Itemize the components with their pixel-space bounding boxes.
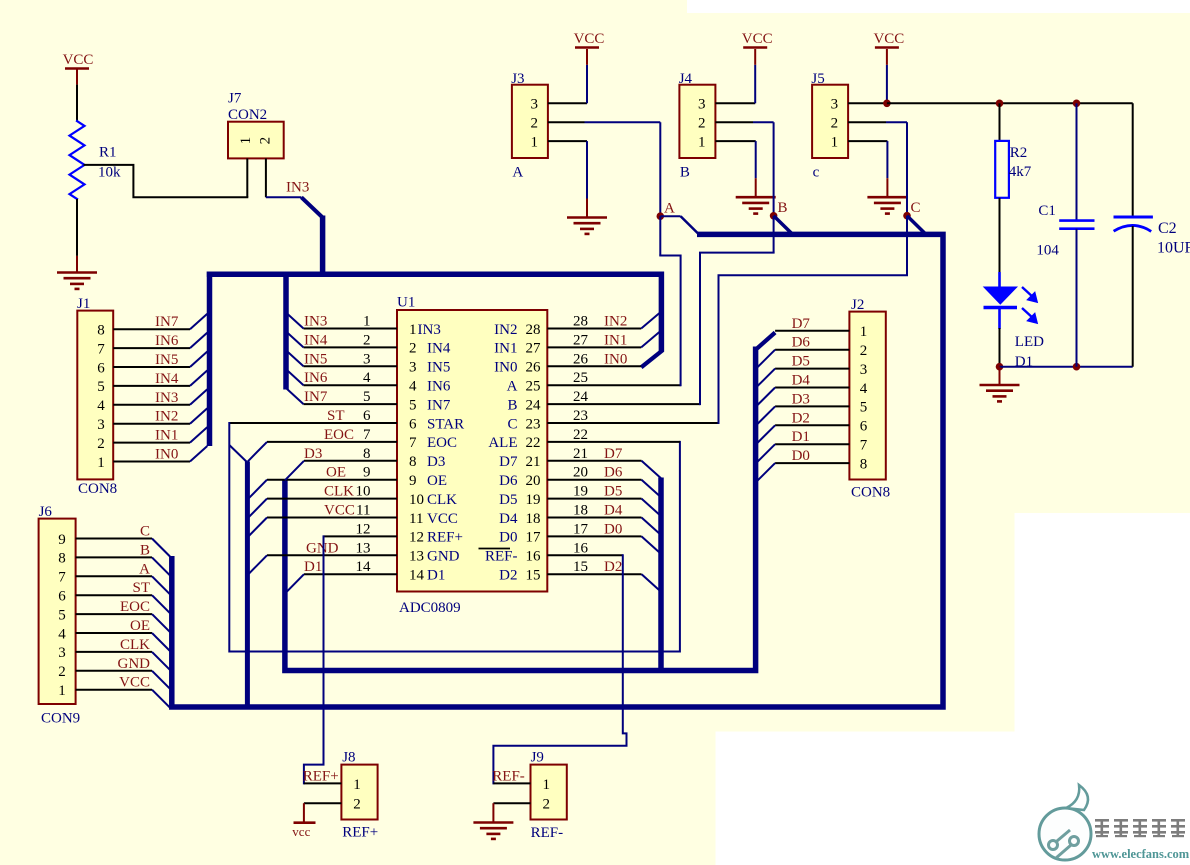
pin 23 of U1 [547,422,718,424]
svg-text:25: 25 [573,370,588,386]
svg-text:IN2: IN2 [604,314,627,330]
svg-text:OE: OE [130,618,150,634]
svg-text:2: 2 [363,332,371,348]
svg-text:6: 6 [58,589,66,605]
svg-text:23: 23 [526,416,541,432]
bus entry IN1 to right IN leg [641,332,659,348]
node A [657,212,665,220]
svg-text:STAR: STAR [427,416,464,432]
pin 3 of U1 [304,365,398,367]
bus entry ST to bus [152,595,170,613]
svg-text:D5: D5 [604,484,622,500]
svg-text:VCC: VCC [873,31,904,47]
svg-text:R2: R2 [1010,145,1028,161]
bus entry D4 to data bus [757,388,776,407]
wire C net (U1 pin23 up to node C) [719,275,908,423]
svg-text:14: 14 [356,559,372,575]
svg-text:D2: D2 [604,559,622,575]
overbar on REF- pin name (pin16) [479,548,511,550]
svg-text:1: 1 [363,314,371,330]
pin 1 of J5 to ground [848,140,887,142]
pin 11 of U1 [267,517,397,519]
svg-text:A: A [139,561,150,577]
bus entry EOC to bus A [248,442,267,462]
svg-text:28: 28 [526,322,541,338]
wire REF+ net (pin12 down to J8) [304,536,324,783]
svg-text:IN3: IN3 [155,390,178,406]
wire VCC to R1 [76,85,78,121]
svg-text:2: 2 [530,116,538,132]
pin 10 of U1 [267,498,397,500]
svg-text:C1: C1 [1038,203,1056,219]
svg-text:5: 5 [97,379,105,395]
svg-text:B: B [778,200,788,216]
pin 5 of U1 [304,403,398,405]
svg-text:vcc: vcc [292,824,310,839]
svg-text:3: 3 [698,97,706,113]
capacitor C2 10UF [1132,103,1134,216]
bus (U1 right IN leg) [659,272,665,352]
svg-text:4: 4 [97,398,105,414]
svg-text:7: 7 [97,341,105,357]
bus entry IN7 to input bus [190,314,207,330]
bus entry IN2 to input bus [190,408,207,424]
bus entry VCC to bus A [248,518,267,538]
svg-text:3: 3 [58,645,66,661]
pin 3 of J4 to VCC [715,102,755,104]
svg-text:16: 16 [526,549,542,565]
bus entry EOC to bus [152,614,170,632]
ground (LED) [999,367,1001,385]
svg-text:D3: D3 [792,391,810,407]
svg-text:8: 8 [97,323,105,339]
svg-text:IN3: IN3 [286,180,309,196]
svg-text:9: 9 [409,473,417,489]
svg-text:IN6: IN6 [155,333,179,349]
svg-text:D0: D0 [499,530,517,546]
svg-text:2: 2 [97,436,105,452]
pin 2 of U1 [304,346,398,348]
svg-text:IN6: IN6 [304,370,328,386]
bus IN3 vertical to top bus [320,216,326,277]
pin 2 of J8 to vcc [304,802,342,804]
pin 4 of U1 [304,384,398,386]
bus entry D3 to data bus [757,406,776,425]
node B [770,212,778,220]
svg-text:13: 13 [356,540,371,556]
svg-text:CON2: CON2 [228,107,267,123]
ground (J5) [867,196,907,199]
svg-text:VCC: VCC [63,52,94,68]
svg-text:D1: D1 [427,568,445,584]
junction at R2 top [996,100,1004,108]
bus D entry to J2 D7 (thick diagonal) [757,333,775,349]
bus entry B (diagonal) [774,216,793,234]
svg-text:4: 4 [363,370,371,386]
svg-text:U1: U1 [397,295,415,311]
svg-text:IN5: IN5 [304,351,327,367]
pin 1 of J3 to ground [548,140,587,142]
pin 25 of U1 [547,384,680,386]
svg-text:D3: D3 [304,446,322,462]
pin 18 of U1 [547,517,641,519]
pin 19 of U1 [547,498,641,500]
bus entry IN6 to input bus [190,333,207,349]
svg-text:25: 25 [526,379,541,395]
svg-text:VCC: VCC [427,511,458,527]
bus A (control bus vertical) [245,462,250,709]
bus entry IN4 to input bus [190,370,207,386]
pin 15 of U1 [547,573,641,575]
svg-text:IN3: IN3 [418,322,441,338]
wire VCC rail (J5 pin3 to C2) [887,102,1133,104]
svg-text:B: B [140,542,150,558]
svg-text:20: 20 [573,465,588,481]
svg-text:IN7: IN7 [427,397,451,413]
junction at C1 bottom [1073,363,1081,371]
svg-text:REF-: REF- [492,769,525,785]
bus (J1 input bus vertical) [207,272,213,447]
ground (J3) [567,216,607,219]
svg-text:IN4: IN4 [304,332,328,348]
svg-text:10UF: 10UF [1157,240,1190,257]
svg-text:23: 23 [573,408,588,424]
svg-text:1: 1 [543,777,551,793]
svg-text:IN5: IN5 [155,352,178,368]
svg-text:J6: J6 [39,504,53,520]
pin 16 of U1 [547,554,623,556]
pin 1 of U1 [304,328,398,330]
svg-text:IN0: IN0 [155,447,178,463]
bus entry D3 to bus D [285,461,304,481]
svg-text:ADC0809: ADC0809 [399,600,461,616]
watermark text [1095,819,1185,837]
svg-text:24: 24 [526,397,542,413]
svg-text:15: 15 [526,568,541,584]
svg-text:EOC: EOC [120,599,150,615]
svg-text:2: 2 [353,797,361,813]
svg-text:B: B [507,397,517,413]
svg-text:D4: D4 [604,503,623,519]
svg-text:6: 6 [409,416,417,432]
svg-text:19: 19 [573,484,588,500]
svg-text:D1: D1 [304,559,322,575]
svg-text:CLK: CLK [427,492,457,508]
ground (J4) [736,196,776,199]
svg-text:5: 5 [860,400,868,416]
svg-text:IN1: IN1 [155,428,178,444]
bus entry A to bus [152,576,170,594]
bus entry CLK to bus [152,652,170,670]
bus (U1 input bus vertical) [283,272,289,390]
svg-text:20: 20 [526,473,541,489]
wire bottom rail (LED to C2) [1000,366,1133,368]
junction at C1 top [1073,100,1081,108]
svg-text:1: 1 [58,683,66,699]
svg-text:1: 1 [238,137,254,145]
svg-text:OE: OE [326,465,346,481]
bus entry IN3 to input bus [190,389,207,405]
svg-text:D4: D4 [499,511,518,527]
bus D (left data bus + bottom run) [285,347,756,671]
bus entries U1 pins 1-5 from input bus [286,313,303,329]
svg-text:2: 2 [831,116,839,132]
svg-text:J9: J9 [531,750,544,766]
svg-text:21: 21 [526,454,541,470]
svg-text:4: 4 [860,381,868,397]
svg-text:A: A [512,165,523,181]
svg-text:8: 8 [409,454,417,470]
svg-text:27: 27 [573,332,589,348]
svg-text:2: 2 [409,341,417,357]
svg-text:D7: D7 [499,454,518,470]
pin 13 of U1 [267,554,397,556]
watermark logo elecfans [1039,785,1190,861]
svg-text:8: 8 [363,446,371,462]
svg-text:16: 16 [573,540,589,556]
wire LED to ground rail [999,328,1001,367]
svg-text:www.elecfans.com: www.elecfans.com [1092,847,1190,861]
wire R1 to ground [76,199,78,256]
bus entry IN0 to input bus [190,446,207,462]
svg-text:OE: OE [427,473,447,489]
svg-text:18: 18 [573,503,588,519]
bus entry C to bus [152,539,170,557]
svg-text:D2: D2 [792,410,810,426]
svg-text:6: 6 [860,419,868,435]
svg-text:IN6: IN6 [427,379,451,395]
ground (below R1) [57,271,97,274]
svg-text:IN2: IN2 [155,409,178,425]
svg-text:3: 3 [831,97,839,113]
svg-text:IN4: IN4 [427,341,451,357]
capacitor C1 104 [1076,103,1078,219]
svg-text:IN7: IN7 [304,389,328,405]
bus entry OE to bus [152,633,170,651]
svg-text:EOC: EOC [427,435,457,451]
svg-text:C2: C2 [1158,220,1177,237]
svg-text:26: 26 [526,360,542,376]
bus entry IN1 to input bus [190,427,207,443]
svg-text:D0: D0 [792,448,810,464]
svg-text:IN3: IN3 [304,314,327,330]
svg-text:22: 22 [526,435,541,451]
svg-text:28: 28 [573,314,588,330]
svg-text:GND: GND [118,656,151,672]
bus entry D1 to data bus [757,444,776,463]
svg-text:LED: LED [1015,334,1044,350]
bus entry OE to bus A [248,480,267,500]
svg-text:1: 1 [530,134,538,150]
pin 8 of U1 [304,460,397,462]
svg-text:D4: D4 [792,373,811,389]
svg-text:104: 104 [1036,243,1059,259]
svg-text:1: 1 [698,134,706,150]
bus entry from ST line to bus A [229,445,247,463]
resistor R2 4k7 [999,103,1001,141]
svg-text:19: 19 [526,492,541,508]
wire node C down [906,216,908,276]
svg-text:B: B [680,165,690,181]
bus entry B to bus [152,557,170,575]
pin 21 of U1 [547,460,641,462]
pin 6 of U1 [229,422,397,424]
svg-text:14: 14 [409,568,425,584]
svg-text:1: 1 [860,324,868,340]
bus entry IN5 to input bus [190,352,207,368]
pin 2 of J3 [548,121,585,123]
svg-text:15: 15 [573,559,588,575]
svg-text:3: 3 [409,360,417,376]
svg-text:VCC: VCC [574,31,605,47]
pin 12 of U1 [324,535,398,537]
svg-text:D1: D1 [792,429,810,445]
pin 22 of U1 [547,441,680,443]
svg-text:3: 3 [530,97,538,113]
svg-text:1: 1 [353,777,361,793]
svg-text:22: 22 [573,427,588,443]
bus entry IN2 to right IN leg [641,313,659,329]
pin 26 of U1 [547,365,641,367]
svg-text:A: A [664,201,675,217]
svg-text:IN2: IN2 [494,322,517,338]
svg-text:3: 3 [363,351,371,367]
svg-text:VCC: VCC [119,675,150,691]
wire node A down [659,216,661,255]
svg-text:REF-: REF- [531,825,564,841]
svg-text:11: 11 [409,511,423,527]
svg-text:J8: J8 [342,750,355,766]
svg-text:9: 9 [363,465,371,481]
pin 1 of J7 [246,158,248,197]
wire J7 pin2 to IN3 bus entry [266,196,302,198]
svg-text:17: 17 [526,530,542,546]
bus D (U1 right data leg) [658,478,664,671]
wire J5 pin2 down to node C [906,122,908,216]
svg-text:D6: D6 [604,465,623,481]
svg-text:8: 8 [860,456,868,472]
wire R1 tap to J7 pin1 [85,165,248,197]
svg-text:CON8: CON8 [851,485,890,501]
svg-text:IN7: IN7 [155,314,179,330]
bus entry D5 to data bus [757,369,776,388]
bus entry D2 to data bus [757,425,776,444]
svg-text:D5: D5 [792,354,810,370]
svg-text:7: 7 [58,570,66,586]
wire ST/ALE net (pin6 down, across, up to pin22) [229,423,680,652]
svg-text:C: C [911,200,921,216]
bus entry D6 to data bus [757,350,776,369]
svg-text:4: 4 [409,379,417,395]
svg-text:24: 24 [573,389,589,405]
svg-text:VCC: VCC [742,31,773,47]
wire J3 pin2 down to node A [659,122,661,216]
pin 17 of U1 [547,535,641,537]
svg-text:1: 1 [97,455,105,471]
svg-text:2: 2 [543,797,551,813]
svg-text:D0: D0 [604,521,622,537]
bus entries D7-D0,D2 to right data leg [642,461,662,479]
svg-text:17: 17 [573,521,589,537]
svg-text:10: 10 [356,484,371,500]
bus entry CLK to bus A [248,499,267,518]
svg-text:CLK: CLK [120,637,150,653]
pin 20 of U1 [547,479,641,481]
resistor R1 10k [70,121,85,199]
svg-text:D7: D7 [604,446,623,462]
svg-text:ST: ST [132,580,150,596]
svg-text:11: 11 [356,503,370,519]
svg-text:D5: D5 [499,492,517,508]
svg-text:REF+: REF+ [303,769,339,785]
svg-text:12: 12 [356,521,371,537]
pin 14 of U1 [304,573,397,575]
pin 9 of U1 [267,479,397,481]
svg-text:GND: GND [306,540,339,556]
pin 3 of J3 to VCC [548,102,587,104]
svg-text:EOC: EOC [324,427,354,443]
svg-text:3: 3 [860,362,868,378]
svg-text:2: 2 [698,116,706,132]
svg-text:IN1: IN1 [604,332,627,348]
bus entry VCC to bus [152,690,170,708]
svg-text:IN0: IN0 [494,360,517,376]
wire R2 to LED [999,198,1001,273]
svg-text:A: A [507,379,518,395]
svg-text:ALE: ALE [488,435,517,451]
svg-text:VCC: VCC [324,503,355,519]
pin 1 of J8 [304,782,342,784]
svg-text:IN4: IN4 [155,371,179,387]
svg-text:5: 5 [58,607,66,623]
svg-text:26: 26 [573,351,589,367]
bus entry A (diagonal) [681,216,699,234]
svg-text:4: 4 [58,626,66,642]
svg-text:IN5: IN5 [427,360,450,376]
svg-text:D6: D6 [499,473,518,489]
bus entry C (diagonal) [907,216,926,234]
wire node B down [773,216,775,253]
svg-text:CON8: CON8 [78,481,117,497]
svg-text:IN0: IN0 [604,351,627,367]
svg-text:6: 6 [97,360,105,376]
svg-text:D7: D7 [792,316,811,332]
bus entry D1 to bus D [285,574,304,593]
svg-text:5: 5 [363,389,371,405]
svg-text:8: 8 [58,551,66,567]
svg-text:13: 13 [409,549,424,565]
pin 2 of J4 [715,121,753,123]
svg-text:4k7: 4k7 [1009,164,1032,180]
svg-text:D2: D2 [499,568,517,584]
bus entry IN3 (thick diagonal) [301,197,322,217]
bus entry GND to bus A [248,555,267,575]
svg-text:C: C [140,524,150,540]
svg-text:1: 1 [831,134,839,150]
svg-text:7: 7 [860,438,868,454]
svg-text:7: 7 [409,435,417,451]
svg-text:REF+: REF+ [427,530,463,546]
svg-text:5: 5 [409,397,417,413]
bus (J6 leg + bottom horizontal + right vertical + top-right horizontal) [172,234,943,707]
svg-text:J7: J7 [228,91,242,107]
pin 28 of U1 [547,328,641,330]
pin 1 of J9 [493,782,530,784]
pin 27 of U1 [547,346,641,348]
svg-text:3: 3 [97,417,105,433]
bus entry D0 to data bus [757,463,776,482]
svg-text:CON9: CON9 [41,711,80,727]
